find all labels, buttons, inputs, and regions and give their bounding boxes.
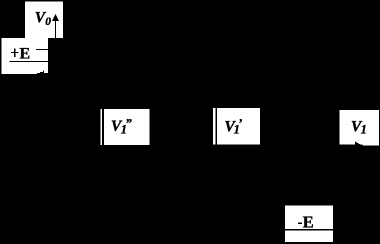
-E minus sign bbox=[298, 223, 302, 224]
label patch V0 (output-axis label background) bbox=[25, 1, 63, 38]
svg-text:’: ’ bbox=[238, 115, 242, 130]
+E level dashed tick bbox=[36, 49, 48, 50]
label patch -E (negative saturation level background) bbox=[285, 205, 333, 242]
svg-text:1: 1 bbox=[361, 123, 367, 137]
label patch V1 (input-axis label background) bbox=[340, 110, 380, 146]
label patch V1' (upper threshold background) bbox=[213, 108, 260, 145]
+E saturation line segment bbox=[10, 61, 48, 62]
svg-text:”: ” bbox=[125, 115, 132, 130]
-E saturation line segment bbox=[285, 229, 333, 231]
V1 axis arrowhead (clipped at patch bottom) bbox=[355, 142, 363, 146]
svg-text:0: 0 bbox=[45, 16, 51, 28]
svg-text:E: E bbox=[20, 46, 31, 63]
label patch V1'' (lower threshold background) bbox=[100, 109, 149, 145]
+E plus sign vertical bar bbox=[14, 49, 15, 57]
V1 axis line segment bbox=[340, 145, 363, 146]
svg-text:E: E bbox=[303, 212, 314, 231]
+E plus sign horizontal bar bbox=[11, 52, 19, 53]
curve direction arrowhead (clipped at patch bottom) bbox=[37, 71, 48, 74]
V0 axis arrow stem bbox=[55, 20, 56, 39]
V0 axis arrowhead bbox=[52, 14, 59, 21]
label patch +E (positive saturation level background) bbox=[2, 38, 48, 74]
V1' threshold vertical line bbox=[215, 108, 217, 145]
V1'' threshold vertical line bbox=[102, 109, 104, 145]
